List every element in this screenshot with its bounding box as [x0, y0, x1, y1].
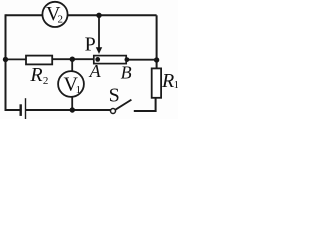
node: junction V1 bottom — [70, 107, 75, 112]
svg-text:A: A — [89, 61, 102, 81]
svg-text:P: P — [85, 34, 96, 56]
switch S pivot circle — [111, 109, 116, 114]
voltmeter V2 — [42, 2, 67, 27]
svg-text:R: R — [29, 64, 42, 86]
battery positive long plate — [25, 98, 27, 119]
wire: V1 top stub — [71, 59, 73, 71]
svg-text:1: 1 — [174, 79, 178, 91]
slider arrowhead — [96, 47, 102, 54]
switch blade — [115, 100, 131, 110]
resistor R2 — [26, 56, 52, 65]
wire: right vertical — [156, 15, 158, 68]
svg-text:S: S — [109, 85, 120, 107]
svg-text:2: 2 — [43, 75, 49, 87]
wire: left vertical — [5, 14, 7, 111]
wire: top horizontal — [6, 14, 157, 16]
node: junction top wire / slider — [96, 13, 101, 18]
svg-text:1: 1 — [76, 84, 82, 96]
voltmeter V1 — [58, 71, 84, 97]
node B terminal dot — [125, 57, 130, 62]
node A terminal dot — [95, 57, 100, 62]
wire: bottom left (battery to switch) — [6, 109, 20, 111]
slider arrow P: vertical line — [98, 15, 100, 49]
resistor R1 — [152, 68, 161, 97]
node: junction V1 top — [70, 57, 75, 62]
node: junction right wire / B wire — [154, 57, 159, 62]
battery negative short plate — [20, 104, 22, 116]
svg-text:2: 2 — [58, 13, 64, 25]
wire: B terminal to right wire — [127, 59, 157, 61]
wire: bottom right to R1 — [134, 98, 156, 112]
svg-text:B: B — [121, 62, 132, 82]
wire: bottom middle — [26, 109, 111, 111]
wire: V1 bottom stub — [71, 97, 73, 110]
wire: R2 to rheostat A side — [52, 58, 94, 60]
wire: left branch to R2 — [6, 58, 27, 60]
node: left wire junction — [3, 57, 8, 62]
rheostat body (slider AB) — [94, 56, 126, 64]
svg-text:R: R — [161, 70, 174, 92]
